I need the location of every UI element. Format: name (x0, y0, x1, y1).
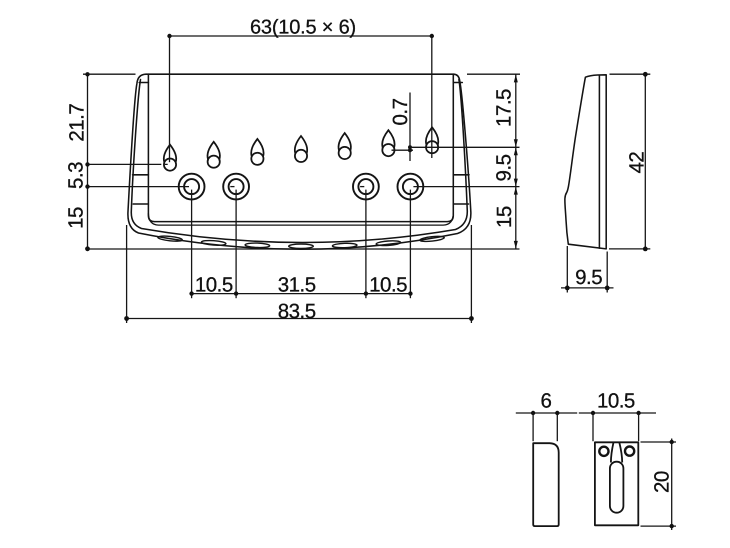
svg-text:20: 20 (651, 471, 674, 493)
svg-text:83.5: 83.5 (278, 300, 316, 323)
svg-text:63(10.5 × 6): 63(10.5 × 6) (250, 16, 356, 38)
svg-text:5.3: 5.3 (65, 162, 88, 189)
svg-text:42: 42 (626, 152, 649, 174)
svg-text:17.5: 17.5 (492, 89, 515, 127)
svg-text:10.5: 10.5 (195, 273, 233, 296)
svg-text:10.5: 10.5 (369, 273, 407, 296)
svg-text:15: 15 (65, 207, 88, 229)
svg-text:9.5: 9.5 (492, 154, 515, 181)
svg-text:15: 15 (493, 206, 516, 228)
svg-text:21.7: 21.7 (65, 104, 88, 142)
svg-text:0.7: 0.7 (389, 98, 412, 125)
svg-text:6: 6 (540, 389, 551, 412)
svg-text:9.5: 9.5 (575, 266, 602, 289)
svg-text:10.5: 10.5 (597, 389, 635, 412)
svg-text:31.5: 31.5 (278, 273, 316, 296)
